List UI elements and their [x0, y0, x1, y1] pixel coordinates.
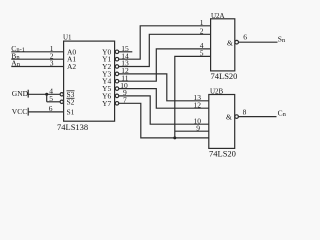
Y0 output bubble pin 15	[115, 50, 119, 54]
Y1 output bubble pin 14	[115, 57, 119, 61]
U2A output bubble pin 6	[235, 40, 239, 44]
wire U2B output to Cn	[238, 116, 276, 118]
wire Y1 to U2A pin 1	[119, 26, 211, 59]
wire Y3 to U2B pin 13	[119, 74, 209, 101]
wire Y7 riser to U2A pin 5	[175, 56, 211, 137]
svg-text:12: 12	[194, 100, 202, 109]
svg-text:6: 6	[49, 104, 53, 113]
svg-text:An: An	[11, 59, 20, 68]
node Y7 bus junction dot	[173, 136, 176, 139]
svg-text:7: 7	[123, 96, 127, 105]
node GND junction dot	[45, 93, 48, 96]
GND port tick	[27, 90, 29, 98]
svg-text:5: 5	[200, 49, 204, 58]
op-amp U2A 74LS20 body	[211, 19, 235, 71]
svg-text:U2A: U2A	[211, 12, 225, 20]
svg-text:5: 5	[49, 94, 53, 103]
IC U1 74LS138 body	[64, 41, 115, 121]
svg-text:2: 2	[200, 27, 204, 36]
svg-text:Sn: Sn	[278, 35, 286, 44]
svg-text:Y7: Y7	[102, 99, 111, 108]
wire GND to pin 4	[28, 93, 60, 95]
svg-text:A2: A2	[67, 62, 76, 71]
Y5 output bubble pin 10	[115, 87, 119, 91]
wire Y5 to U2B pin 12	[119, 89, 209, 109]
pin 5 bubble (S2 active low)	[60, 100, 63, 103]
op-amp U2B 74LS20 body	[209, 95, 235, 149]
wire Y2 to U2A pin 2	[119, 34, 211, 66]
wire Y4 to U2A pin 4	[119, 49, 211, 81]
Y7 output bubble pin 7	[115, 102, 119, 106]
VCC port tick	[27, 108, 29, 116]
svg-text:Cn: Cn	[278, 109, 287, 118]
input wire An to pin 3	[11, 66, 63, 68]
svg-text:8: 8	[243, 107, 247, 116]
Y2 output bubble pin 13	[115, 65, 119, 69]
input wire Cn-1 to pin 1	[11, 51, 63, 53]
svg-text:&: &	[226, 113, 232, 122]
svg-text:VCC: VCC	[12, 107, 27, 116]
wire Y7 down to bottom bus	[119, 103, 209, 138]
svg-text:3: 3	[50, 59, 54, 68]
U2B output bubble pin 8	[235, 115, 239, 119]
svg-text:74LS138: 74LS138	[57, 122, 88, 132]
pin 4 bubble (S3 active low)	[60, 93, 63, 96]
wire bus to U2B pin 9	[175, 130, 209, 132]
input wire Bn to pin 2	[11, 58, 63, 60]
Y4 output bubble pin 11	[115, 79, 119, 83]
svg-text:U1: U1	[63, 34, 72, 42]
Y3 output bubble pin 12	[115, 72, 119, 76]
wire U2A output to Sn	[239, 41, 278, 43]
wire junction down	[46, 94, 48, 102]
svg-text:9: 9	[196, 123, 200, 132]
Y6 output bubble pin 9	[115, 94, 119, 98]
wire VCC to pin 6	[28, 111, 63, 113]
svg-text:&: &	[227, 39, 233, 48]
svg-text:6: 6	[243, 33, 247, 42]
svg-text:74LS20: 74LS20	[211, 71, 238, 81]
wire Y6 to U2B pin 10	[119, 96, 209, 124]
svg-text:U2B: U2B	[210, 88, 224, 96]
wire Y0 stub	[119, 51, 133, 53]
svg-text:74LS20: 74LS20	[209, 149, 236, 159]
svg-text:GND: GND	[12, 89, 29, 98]
svg-text:S1: S1	[67, 107, 75, 116]
wire junction to pin 5	[47, 101, 60, 103]
